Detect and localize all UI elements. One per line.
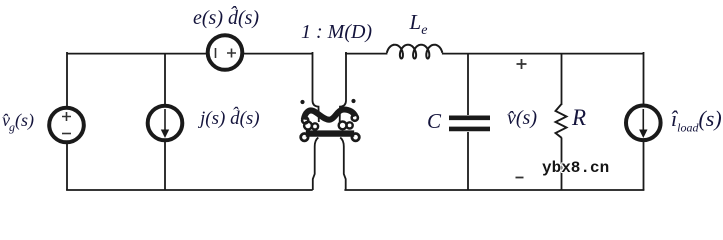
output minus sign <box>516 177 524 179</box>
wire bottom rail secondary <box>344 189 644 191</box>
wire secondary bottom vertical from transformer <box>340 138 346 191</box>
wire R branch top <box>561 53 563 105</box>
source J1 arrow <box>164 109 166 131</box>
transformer T1 secondary left loop <box>301 134 308 141</box>
label e(s)dhat(s) <box>193 7 259 30</box>
wire left vertical top <box>66 52 68 107</box>
wire top rail primary right of e source <box>243 53 313 55</box>
source J2 arrow <box>642 109 644 131</box>
resistor R zigzag <box>556 104 567 138</box>
source J1 j(s)dhat(s) circle <box>148 106 183 141</box>
label j(s)dhat(s) <box>200 108 260 130</box>
wire capacitor branch bottom <box>467 132 469 190</box>
watermark ybx8.cn <box>542 159 609 177</box>
source V1 plus sign <box>62 112 71 121</box>
transformer T1 primary right curl <box>352 115 358 121</box>
transformer T1 middle loops right <box>339 122 347 130</box>
wire top rail primary left <box>67 53 207 55</box>
label vhat(s) <box>507 107 537 130</box>
wire bottom rail primary <box>66 189 313 191</box>
transformer T1 secondary bar <box>306 130 354 136</box>
transformer T1 middle loops left <box>304 122 312 130</box>
wire capacitor branch top <box>467 53 469 115</box>
transformer T1 primary ribbon <box>304 110 356 120</box>
source E1 minus bar <box>215 48 217 58</box>
wire right vertical bottom <box>643 141 645 190</box>
wire secondary top vertical from transformer <box>340 52 346 122</box>
source E1 plus sign <box>227 49 236 58</box>
wire primary top vertical into transformer <box>313 52 319 122</box>
label Le <box>410 10 428 39</box>
wire R branch bottom <box>561 138 563 191</box>
transformer T1 primary left curl <box>302 117 308 123</box>
output plus sign <box>517 59 527 69</box>
source J2 iload circle <box>626 106 661 141</box>
source V1 minus sign <box>62 133 71 135</box>
source E1 e(s)dhat(s) circle <box>208 35 243 70</box>
wire top rail secondary right of Le <box>442 53 644 55</box>
wire middle vertical top <box>164 53 166 105</box>
transformer T1 secondary right loop <box>352 134 359 141</box>
wire top rail secondary left of Le <box>345 53 387 55</box>
transformer T1 dot primary <box>300 100 304 104</box>
inductor Le coil <box>387 45 442 59</box>
label vhat_g(s) <box>2 110 34 135</box>
label 1:M(D) <box>301 21 372 44</box>
wire middle vertical bottom <box>164 141 166 190</box>
wire primary bottom vertical from transformer <box>313 138 319 191</box>
capacitor C top plate <box>449 116 490 121</box>
label ihat_load(s) <box>671 106 722 135</box>
wire right vertical top <box>643 52 645 105</box>
capacitor C bottom plate <box>449 127 490 132</box>
source V1 vhat_g circle <box>49 108 84 143</box>
label C <box>427 109 441 134</box>
wire left vertical bottom <box>66 143 68 190</box>
label R <box>572 105 586 131</box>
transformer T1 dot secondary <box>351 99 355 103</box>
